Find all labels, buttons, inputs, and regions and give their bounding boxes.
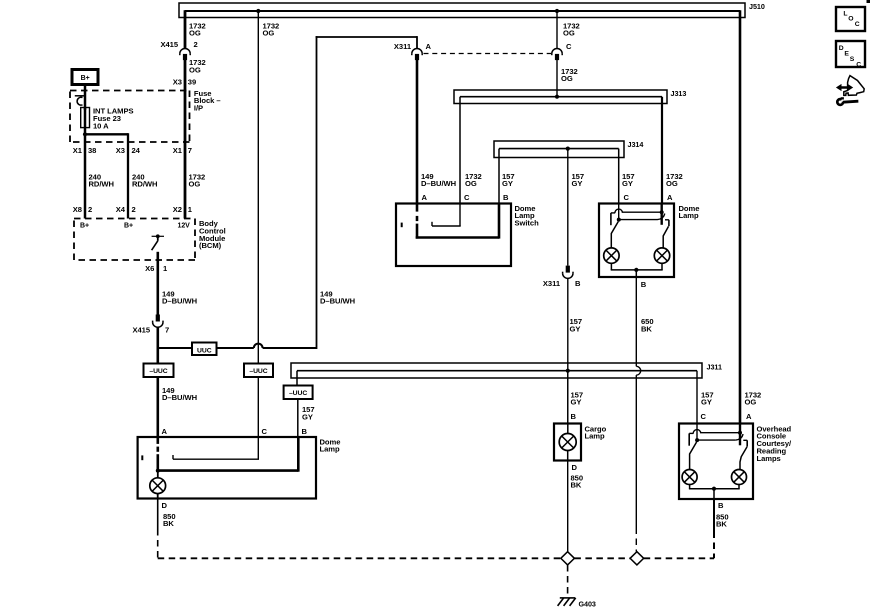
junction overhead console B bbox=[712, 487, 716, 491]
wire cargo lamp bulb to pin D bbox=[567, 451, 569, 461]
svg-text:X1: X1 bbox=[73, 146, 83, 155]
svg-text:S: S bbox=[850, 56, 855, 63]
dome lamp switch contact A (open switch) bbox=[416, 204, 419, 239]
LOC link box bbox=[836, 7, 865, 31]
dome lamp left switch lever bbox=[611, 222, 618, 249]
svg-text:OG: OG bbox=[189, 65, 201, 74]
wire 1732 OG through fuse block X3 39 to X1 7 bbox=[184, 91, 187, 143]
svg-text:GY: GY bbox=[571, 398, 582, 407]
splice diamond S right bbox=[630, 552, 644, 565]
svg-text:BK: BK bbox=[571, 481, 582, 490]
connector X415 pin 2 bbox=[180, 49, 190, 61]
svg-text:A: A bbox=[426, 42, 432, 51]
svg-text:RD/WH: RD/WH bbox=[132, 180, 157, 189]
junction overhead console A bbox=[738, 431, 742, 435]
-UUC option box on dome lamp B wire bbox=[284, 386, 313, 400]
svg-text:D: D bbox=[572, 463, 578, 472]
svg-text:J510: J510 bbox=[749, 2, 765, 11]
connector X311 pin A bbox=[412, 48, 422, 60]
svg-text:Lamps: Lamps bbox=[757, 454, 781, 463]
svg-text:1: 1 bbox=[163, 264, 168, 273]
junction J314 bbox=[566, 147, 570, 151]
wire 240 RD/WH from X3 24 to BCM B+ bbox=[127, 142, 129, 219]
dome lamp contact C (off) bbox=[173, 437, 259, 459]
dome lamp bulb bbox=[150, 478, 166, 494]
svg-text:38: 38 bbox=[88, 146, 96, 155]
svg-text:OG: OG bbox=[263, 29, 275, 38]
wire 157 GY from X311 B to splice J311 bbox=[567, 279, 569, 424]
connector X311 harness dashed tie line bbox=[424, 53, 552, 55]
svg-text:GY: GY bbox=[572, 179, 583, 188]
wire 1732 OG from J510 to connector X311 pin C bbox=[556, 11, 558, 49]
svg-text:E: E bbox=[844, 50, 849, 57]
connector X311 pin B bbox=[563, 266, 573, 279]
wire 157 GY from J314 to connector X311 pin B bbox=[567, 149, 569, 266]
-UUC option box on 1732 OG wire bbox=[244, 364, 273, 378]
svg-text:J311: J311 bbox=[707, 363, 722, 372]
DESC link box bbox=[836, 41, 865, 68]
dome lamp switch case mark bbox=[401, 223, 403, 228]
wire fuse output branch to X3 24 bbox=[84, 133, 128, 135]
wire 240 RD/WH from X1 38 to BCM B+ bbox=[84, 142, 87, 219]
wire 149 D-BU/WH top run to connector X311 pin A bbox=[316, 36, 417, 38]
svg-text:GY: GY bbox=[302, 412, 313, 421]
svg-text:G403: G403 bbox=[579, 599, 596, 608]
svg-text:–UUC: –UUC bbox=[149, 368, 167, 375]
svg-text:C: C bbox=[262, 427, 268, 436]
overhead console fixed contact left bbox=[689, 433, 693, 445]
-UUC option box on 149 D-BU/WH wire bbox=[144, 364, 174, 378]
svg-text:J313: J313 bbox=[671, 89, 687, 98]
svg-text:D–BU/WH: D–BU/WH bbox=[320, 297, 355, 306]
svg-text:BK: BK bbox=[163, 519, 174, 528]
svg-text:C: C bbox=[856, 61, 861, 68]
wire 1732 OG from J510 to connector X415 pin 2 bbox=[184, 10, 187, 48]
svg-text:C: C bbox=[566, 42, 572, 51]
svg-text:OG: OG bbox=[189, 180, 201, 189]
wire 1732 OG from X1 7 to BCM 12V bbox=[184, 142, 187, 219]
wire 157 GY from J311 right end to overhead console pin C bbox=[696, 371, 698, 424]
svg-text:2: 2 bbox=[88, 205, 92, 214]
svg-text:D–BU/WH: D–BU/WH bbox=[162, 297, 197, 306]
svg-text:–UUC: –UUC bbox=[249, 368, 267, 375]
wire BCM switch output to pin X6 1 bbox=[157, 252, 160, 260]
junction overhead console C bbox=[695, 438, 699, 442]
dome lamp case mark bbox=[141, 455, 143, 460]
UUC option box bbox=[192, 343, 217, 356]
junction J311 at 157 GY bbox=[566, 369, 570, 373]
overhead console left switch lever bbox=[690, 442, 697, 469]
svg-text:C: C bbox=[701, 412, 707, 421]
dome lamp switch housing bbox=[396, 204, 511, 267]
wire B+ feed into fuse bbox=[84, 84, 87, 110]
svg-text:D–BU/WH: D–BU/WH bbox=[162, 393, 197, 402]
junction on J510 bus bbox=[555, 9, 559, 13]
svg-text:B: B bbox=[641, 280, 647, 289]
svg-text:I/P: I/P bbox=[194, 104, 203, 113]
fuse holder clip symbol bbox=[75, 96, 85, 105]
connector X311 pin C bbox=[552, 48, 562, 60]
svg-text:X6: X6 bbox=[145, 264, 154, 273]
overhead console fixed contact right bbox=[743, 440, 747, 446]
splice pack J510 bus bar bbox=[179, 3, 745, 18]
wire 149 D-BU/WH from X311 A to dome lamp switch pin A bbox=[416, 60, 419, 204]
wire 1732 OG from X415 to fuse block pin X3 39 bbox=[184, 60, 187, 91]
ground symbol G403 bbox=[558, 598, 576, 606]
dome lamp (roof) housing bbox=[599, 204, 674, 278]
wire 850 BK cargo lamp to ground splice bbox=[567, 461, 569, 552]
svg-text:Lamp: Lamp bbox=[320, 445, 340, 454]
dome lamp switch contact C (off position) bbox=[432, 204, 461, 227]
dashed wire splice to ground G403 bbox=[567, 565, 569, 595]
svg-text:A: A bbox=[746, 412, 752, 421]
dome lamp switch contact A (open) bbox=[157, 437, 160, 472]
svg-text:X311: X311 bbox=[543, 279, 561, 288]
wire 1732 OG from J510 to connector X415 riser (-UUC circuit) bbox=[257, 11, 259, 437]
wire through fuse down to branch bbox=[84, 107, 87, 135]
wire 850 BK from dome lamp D to ground splice bbox=[157, 499, 159, 530]
svg-text:UUC: UUC bbox=[197, 347, 212, 354]
overhead console contact bar from C junction to A arc bbox=[697, 434, 743, 440]
dome lamp switch closed path A to B bbox=[416, 236, 499, 239]
svg-text:B: B bbox=[302, 427, 308, 436]
splice pack J311 bus bar bbox=[291, 363, 702, 378]
svg-text:C: C bbox=[464, 193, 470, 202]
svg-text:X311: X311 bbox=[394, 42, 412, 51]
svg-text:OG: OG bbox=[745, 398, 757, 407]
battery feed B+ box bbox=[72, 70, 98, 85]
dome lamp bulb right bbox=[654, 248, 669, 263]
ground distribution dashed wire segment bbox=[644, 557, 714, 559]
svg-text:J314: J314 bbox=[628, 140, 644, 149]
dome lamp fixed contact right bbox=[665, 220, 669, 226]
body control module BCM dashed housing bbox=[74, 219, 195, 261]
junction on J510 bus bbox=[256, 9, 260, 13]
wire 1732 OG main feed from J510 to overhead console pin A bbox=[739, 10, 742, 423]
svg-text:OG: OG bbox=[563, 29, 575, 38]
svg-text:X2: X2 bbox=[173, 205, 182, 214]
svg-text:C: C bbox=[624, 193, 630, 202]
overhead console bulb right bbox=[732, 470, 747, 485]
svg-text:B: B bbox=[571, 412, 577, 421]
wire 1732 OG from X311 C to splice J313 bbox=[556, 60, 558, 97]
svg-text:2: 2 bbox=[194, 40, 198, 49]
svg-text:X8: X8 bbox=[73, 205, 82, 214]
svg-text:D: D bbox=[839, 45, 844, 52]
cargo lamp housing bbox=[554, 424, 581, 461]
junction dome lamp bulb feed bbox=[156, 469, 160, 473]
svg-text:X1: X1 bbox=[173, 146, 183, 155]
ground distribution dashed wire segment bbox=[574, 557, 630, 559]
wire fuse output down to X1 38 bbox=[84, 134, 87, 142]
dome lamp (lower) housing bbox=[138, 437, 316, 499]
overhead console courtesy/reading lamps housing bbox=[679, 424, 753, 500]
BCM internal driver switch bbox=[152, 234, 164, 250]
svg-text:B+: B+ bbox=[80, 223, 89, 230]
wire 157 GY from J314 to dome lamp switch pin B bbox=[498, 149, 500, 204]
cargo lamp bulb bbox=[559, 434, 576, 451]
dome lamp bulb left bbox=[604, 248, 619, 263]
svg-text:B+: B+ bbox=[81, 75, 90, 82]
svg-text:OG: OG bbox=[561, 74, 573, 83]
junction at fuse output bbox=[83, 132, 87, 136]
wire 1732 OG from J313 to dome lamp switch pin C bbox=[459, 97, 461, 204]
splice pack J314 bus bar bbox=[494, 141, 624, 158]
svg-text:10 A: 10 A bbox=[93, 122, 109, 131]
svg-text:GY: GY bbox=[570, 324, 581, 333]
wire dome lamp bulb to pin D bbox=[157, 494, 159, 499]
svg-text:BK: BK bbox=[716, 520, 727, 529]
wire 157 GY from J311 left end to -UUC and dome lamp pin B bbox=[296, 371, 298, 386]
action icon: arrow, pointer and wrench bbox=[836, 76, 864, 105]
svg-text:L: L bbox=[843, 11, 847, 18]
cargo lamp bulb feed bbox=[567, 424, 569, 434]
svg-text:39: 39 bbox=[188, 78, 196, 87]
svg-text:GY: GY bbox=[622, 179, 633, 188]
wire to dome lamp bulb bbox=[157, 471, 159, 478]
overhead console right switch lever bbox=[740, 447, 747, 470]
wire 650 BK from dome lamp B to splice (hop over J311) bbox=[636, 277, 640, 552]
svg-text:B: B bbox=[718, 501, 724, 510]
svg-text:GY: GY bbox=[701, 398, 712, 407]
svg-text:D: D bbox=[162, 501, 168, 510]
svg-text:OG: OG bbox=[666, 179, 678, 188]
dome lamp closed path A to B bbox=[157, 469, 299, 472]
wire 157 GY from J314 to dome lamp pin C bbox=[618, 149, 620, 204]
svg-text:7: 7 bbox=[165, 325, 169, 334]
fuse block I/P dashed housing bbox=[70, 91, 190, 143]
svg-text:A: A bbox=[422, 193, 428, 202]
dome lamp contact bar from C junction to A arc bbox=[619, 214, 665, 220]
svg-text:12V: 12V bbox=[178, 223, 191, 230]
splice diamond S left bbox=[561, 552, 575, 565]
svg-text:A: A bbox=[667, 193, 673, 202]
svg-text:Switch: Switch bbox=[515, 219, 540, 228]
svg-text:D–BU/WH: D–BU/WH bbox=[421, 179, 456, 188]
wire 149 D-BU/WH X415 down to dome lamp branch bbox=[157, 328, 160, 438]
wire 1732 OG from J313 to dome lamp pin A bbox=[661, 97, 663, 204]
dome lamp fixed contact left bbox=[611, 213, 615, 225]
wire dome lamp A stub bbox=[661, 204, 663, 225]
overhead console ground side wires to pin B bbox=[689, 485, 740, 489]
svg-text:7: 7 bbox=[188, 146, 192, 155]
svg-text:X4: X4 bbox=[116, 205, 126, 214]
svg-text:X3: X3 bbox=[116, 146, 125, 155]
dome lamp contact bar from C arc to A junction bbox=[615, 204, 662, 220]
svg-text:24: 24 bbox=[132, 146, 141, 155]
junction dome lamp A bbox=[660, 210, 664, 214]
junction dome lamp C bbox=[617, 218, 621, 222]
dome lamp ground side wires to pin B bbox=[611, 263, 663, 270]
wire 149 D-BU/WH riser to top bbox=[316, 36, 318, 349]
svg-text:OG: OG bbox=[465, 179, 477, 188]
svg-text:1: 1 bbox=[188, 205, 193, 214]
wire 149 D-BU/WH branch horizontal with hop over 1732 OG wire bbox=[158, 344, 317, 348]
svg-text:Lamp: Lamp bbox=[585, 432, 605, 441]
svg-text:(BCM): (BCM) bbox=[199, 241, 222, 250]
dome lamp right switch lever bbox=[663, 226, 668, 248]
connector X415 pin 7 bbox=[153, 315, 163, 328]
svg-text:X415: X415 bbox=[160, 40, 178, 49]
svg-text:X415: X415 bbox=[132, 325, 150, 334]
svg-text:OG: OG bbox=[189, 29, 201, 38]
svg-text:B+: B+ bbox=[124, 223, 133, 230]
wire 850 BK overhead console to ground splice bbox=[713, 499, 715, 532]
svg-text:A: A bbox=[162, 427, 168, 436]
svg-text:Lamp: Lamp bbox=[679, 211, 699, 220]
junction J313 bbox=[555, 95, 559, 99]
wire 157 GY from J311 to cargo lamp pin B bbox=[567, 371, 569, 424]
svg-text:O: O bbox=[848, 16, 853, 23]
svg-text:B: B bbox=[575, 279, 581, 288]
fuse INT LAMPS Fuse 23 10A element bbox=[81, 108, 90, 128]
overhead console contact bar from C arc to A junction bbox=[693, 424, 740, 441]
wire 149 D-BU/WH from BCM X6 1 to connector X415 pin 7 bbox=[157, 260, 160, 315]
wire overhead console pin B out bbox=[713, 489, 715, 499]
wire dome lamp pin B out bbox=[635, 270, 637, 277]
svg-text:2: 2 bbox=[132, 205, 136, 214]
svg-text:RD/WH: RD/WH bbox=[89, 180, 114, 189]
svg-text:C: C bbox=[855, 21, 860, 28]
svg-text:GY: GY bbox=[502, 179, 513, 188]
overhead console bulb left bbox=[682, 470, 697, 485]
splice pack J313 bus bar bbox=[454, 90, 667, 104]
junction dome lamp B bbox=[634, 268, 638, 272]
svg-text:B: B bbox=[503, 193, 509, 202]
svg-text:X3: X3 bbox=[173, 78, 182, 87]
svg-text:BK: BK bbox=[641, 324, 652, 333]
ground distribution dashed wire 850 BK bbox=[158, 557, 561, 559]
page corner mark bbox=[867, 0, 870, 3]
wire overhead console A stub bbox=[739, 424, 741, 446]
svg-text:–UUC: –UUC bbox=[289, 390, 307, 397]
